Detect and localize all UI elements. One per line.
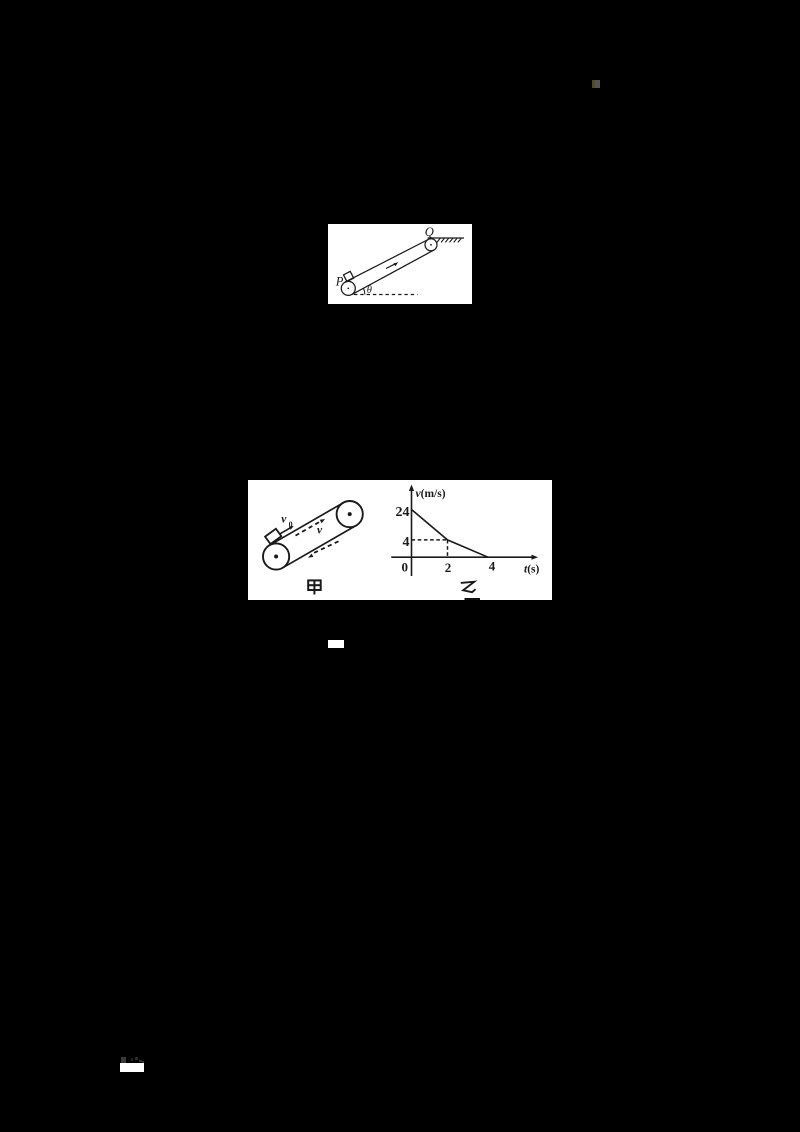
faint residue dot 3 xyxy=(135,1057,138,1060)
upper dashed belt arrow xyxy=(296,521,322,536)
faint residue dot 4 xyxy=(139,1060,142,1063)
svg-text:4: 4 xyxy=(403,535,410,550)
small gray thumbnail square top-right xyxy=(592,80,600,88)
thumbnail olive left edge xyxy=(592,80,595,88)
right pulley (jia) xyxy=(337,501,363,527)
pulley P axle dot xyxy=(347,288,349,290)
ground hatching xyxy=(437,238,461,242)
pulley P xyxy=(341,281,355,295)
figure 1 panel: inclined conveyor P-Q xyxy=(328,224,472,304)
belt direction arrow xyxy=(386,264,395,269)
figure 2 white background xyxy=(248,480,552,600)
svg-text:0: 0 xyxy=(402,560,409,575)
dashed horizontal reference line xyxy=(354,294,418,296)
svg-text:θ: θ xyxy=(367,285,372,296)
dashed guide vertical at t=2 xyxy=(447,540,449,557)
lower belt run (jia) xyxy=(283,525,357,567)
svg-text:t(s): t(s) xyxy=(524,563,540,575)
pulley Q axle dot xyxy=(430,244,432,246)
faint residue dot 2 xyxy=(131,1058,133,1061)
ground line at Q xyxy=(428,237,465,239)
angle arc xyxy=(363,288,365,294)
t axis xyxy=(391,556,534,558)
svg-text:4: 4 xyxy=(489,558,496,573)
upper belt run xyxy=(345,240,428,283)
upper belt run (jia) xyxy=(268,503,343,547)
left pulley (jia) xyxy=(263,543,289,569)
pulley Q xyxy=(425,239,437,251)
figure 2 panel: conveyor jia and v-t graph yi xyxy=(248,480,552,600)
v0 arrow shaft xyxy=(280,527,292,534)
svg-text:P: P xyxy=(335,274,344,288)
upper belt arrow head xyxy=(320,519,325,523)
svg-text:2: 2 xyxy=(445,560,452,575)
lower belt run xyxy=(352,250,434,295)
white rectangle bottom-left xyxy=(120,1063,144,1072)
dashed guide horizontal at v=4 xyxy=(412,539,448,541)
lower belt arrow head xyxy=(308,554,313,558)
t axis arrow head xyxy=(532,555,539,560)
v0 arrow head xyxy=(289,526,294,530)
svg-text:v: v xyxy=(281,514,287,526)
right pulley axle dot xyxy=(348,512,352,516)
svg-text:Q: Q xyxy=(425,225,434,239)
svg-text:24: 24 xyxy=(396,505,410,520)
svg-text:0: 0 xyxy=(289,520,293,529)
faint gray glyph residue bottom-left xyxy=(121,1057,126,1063)
v-t curve xyxy=(412,510,489,558)
block on belt (jia) xyxy=(265,529,281,544)
svg-text:v(m/s): v(m/s) xyxy=(416,488,446,500)
block on belt xyxy=(343,271,353,281)
belt arrow head xyxy=(394,262,399,266)
figure 1 white background xyxy=(328,224,472,304)
v axis xyxy=(411,489,413,577)
caption jia strokes xyxy=(308,580,321,594)
small white rectangle marker mid page xyxy=(328,640,344,648)
cropped mark below yi xyxy=(465,598,481,600)
svg-text:v: v xyxy=(317,524,323,536)
v axis arrow head xyxy=(409,485,414,492)
caption yi strokes xyxy=(461,582,476,593)
lower dashed belt arrow xyxy=(314,541,339,553)
faint residue dot 5 xyxy=(142,1061,144,1063)
left pulley axle dot xyxy=(274,555,278,559)
